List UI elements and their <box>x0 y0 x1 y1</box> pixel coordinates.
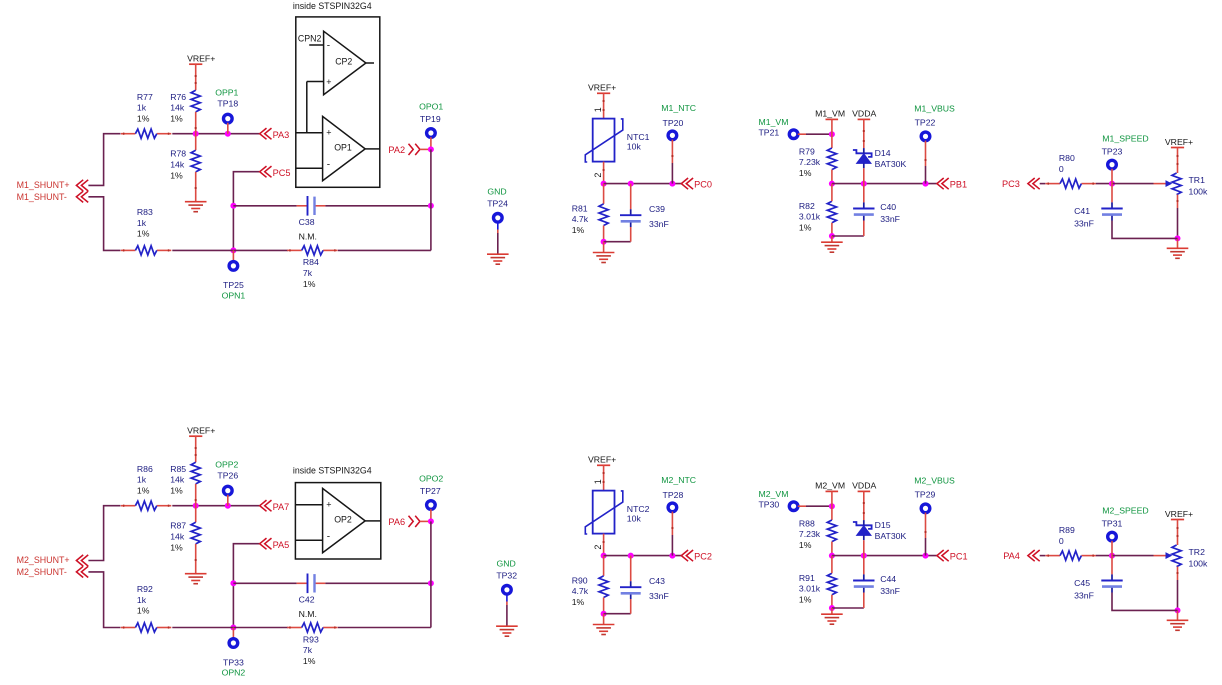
junction R91 ground node <box>829 605 835 611</box>
wire TP31 stub <box>1111 541 1113 556</box>
resistor R91 <box>827 573 836 595</box>
test point TP21 <box>789 130 798 139</box>
wire lower rail right <box>338 249 431 251</box>
port PA4 chevron <box>1028 550 1040 561</box>
junction VM node <box>829 131 835 137</box>
wire NTC node row <box>604 555 682 557</box>
wire output column <box>430 149 432 250</box>
junction TP28 tap <box>669 553 675 559</box>
svg-text:VREF+: VREF+ <box>187 54 215 64</box>
capacitor C41 <box>1101 208 1122 210</box>
junction mid node TP22 <box>923 181 929 187</box>
svg-text:3.01k: 3.01k <box>799 212 821 222</box>
svg-text:CPN2: CPN2 <box>298 34 322 44</box>
wire C41 to TR1 ground <box>1112 221 1178 239</box>
svg-text:PA3: PA3 <box>273 130 290 140</box>
svg-text:-: - <box>327 532 330 543</box>
svg-text:PC0: PC0 <box>694 180 712 190</box>
junction R82 ground node <box>829 233 835 239</box>
port M1_SHUNT+ chevron <box>76 180 88 191</box>
diode D15 cathode <box>853 522 872 529</box>
svg-text:1%: 1% <box>170 170 183 180</box>
wire CP2 plus to OP1 plus <box>296 82 307 133</box>
wire TP25 stub <box>232 250 234 261</box>
comparator CP2 non-inverting input pin <box>307 81 324 83</box>
svg-text:TP21: TP21 <box>759 128 780 138</box>
svg-text:PC1: PC1 <box>950 552 968 562</box>
test point TP29 <box>921 504 930 513</box>
junction R81 ground node <box>601 239 607 245</box>
svg-text:2: 2 <box>593 173 603 178</box>
wire lower rail middle <box>172 627 288 629</box>
junction C43 top <box>628 553 634 559</box>
power VREF+ for R76 <box>189 63 202 65</box>
svg-text:1%: 1% <box>799 540 812 550</box>
resistor R85 <box>191 462 200 484</box>
op-amp OP2 triangle <box>323 488 366 552</box>
diode D14 anode triangle <box>857 154 871 164</box>
svg-text:PA4: PA4 <box>1003 551 1020 561</box>
svg-text:1%: 1% <box>137 229 150 239</box>
svg-text:1%: 1% <box>303 656 316 666</box>
svg-text:R78: R78 <box>170 149 186 159</box>
power VREF+ for R85 <box>189 435 202 437</box>
svg-text:0: 0 <box>1059 164 1064 174</box>
svg-text:R88: R88 <box>799 518 815 528</box>
wire to ground VM <box>831 608 833 614</box>
ground below R87 <box>185 573 207 575</box>
svg-text:inside STSPIN32G4: inside STSPIN32G4 <box>293 466 372 476</box>
wire R85 to rail <box>195 484 197 506</box>
resistor R93 leads <box>287 627 302 629</box>
wire ground node to C40 <box>832 235 864 237</box>
junction TP26 tap <box>225 503 231 509</box>
test point TP24 <box>494 214 503 223</box>
thermistor NTC1 diagonal <box>585 119 623 162</box>
svg-text:1%: 1% <box>137 113 150 123</box>
junction NTC node <box>601 553 607 559</box>
ground speed cluster <box>1167 619 1189 621</box>
svg-text:1%: 1% <box>137 606 150 616</box>
wire cap to output column <box>325 582 431 584</box>
wire TP24 to ground <box>497 222 499 230</box>
test point TP27 <box>427 501 436 510</box>
wire to ground NTC <box>603 242 605 253</box>
resistor R76 <box>191 90 200 112</box>
svg-text:PB1: PB1 <box>950 180 967 190</box>
svg-text:7k: 7k <box>303 268 313 278</box>
wire M1_SHUNT+ to rail <box>88 134 120 186</box>
resistor R93 <box>302 623 323 632</box>
capacitor C42 leads <box>297 582 308 584</box>
junction output column feedback <box>428 203 434 209</box>
svg-text:OPO2: OPO2 <box>419 474 443 484</box>
svg-text:C43: C43 <box>649 576 665 586</box>
svg-text:CP2: CP2 <box>335 57 352 67</box>
port PB1 chevron <box>937 178 949 189</box>
test point TP31 <box>1108 532 1117 541</box>
svg-text:7.23k: 7.23k <box>799 529 821 539</box>
svg-text:OP1: OP1 <box>334 143 352 153</box>
resistor R88 <box>827 520 836 542</box>
wire rail to R78 <box>195 134 197 151</box>
resistor R86 <box>135 501 156 510</box>
svg-text:TP29: TP29 <box>915 489 936 499</box>
svg-text:R81: R81 <box>572 203 588 213</box>
svg-text:M1_NTC: M1_NTC <box>661 103 696 113</box>
thermistor NTC1 body <box>593 119 615 162</box>
svg-text:M1_SPEED: M1_SPEED <box>1102 134 1148 144</box>
junction C39 top <box>628 181 634 187</box>
svg-text:1%: 1% <box>170 542 183 552</box>
wire rail node A <box>172 505 259 507</box>
resistor R84 <box>302 246 323 255</box>
svg-text:PC5: PC5 <box>273 168 291 178</box>
resistor R92 leads <box>121 627 135 629</box>
junction output node <box>428 518 434 524</box>
svg-text:D15: D15 <box>875 520 891 530</box>
port PA3 chevron <box>260 128 272 139</box>
svg-text:33nF: 33nF <box>880 586 900 596</box>
svg-text:14k: 14k <box>170 103 185 113</box>
capacitor C43 <box>620 586 641 588</box>
svg-text:1%: 1% <box>170 113 183 123</box>
svg-text:R90: R90 <box>572 575 588 585</box>
ground NTC cluster <box>593 624 615 626</box>
svg-text:VDDA: VDDA <box>852 109 876 119</box>
test point TP32 <box>503 586 512 595</box>
STSPIN32G4 internal block outline <box>295 483 380 559</box>
svg-text:R85: R85 <box>170 464 186 474</box>
svg-text:R91: R91 <box>799 573 815 583</box>
svg-text:10k: 10k <box>627 141 642 151</box>
resistor R89 <box>1060 551 1081 560</box>
resistor R77 leads <box>121 133 135 135</box>
svg-text:M1_SHUNT+: M1_SHUNT+ <box>17 180 70 190</box>
svg-text:M2_NTC: M2_NTC <box>661 475 696 485</box>
svg-text:R76: R76 <box>170 92 186 102</box>
STSPIN32G4 internal block outline <box>296 17 380 187</box>
svg-text:1%: 1% <box>799 595 812 605</box>
junction mid node D14 <box>861 181 867 187</box>
svg-text:14k: 14k <box>170 160 185 170</box>
capacitor C39 <box>620 214 641 216</box>
wire TP32 to ground <box>506 594 508 602</box>
junction NTC node <box>601 181 607 187</box>
svg-text:1%: 1% <box>799 223 812 233</box>
svg-text:TP33: TP33 <box>223 657 244 667</box>
port M2_SHUNT- chevron <box>76 566 88 577</box>
svg-text:R77: R77 <box>137 92 153 102</box>
junction lower rail TP33 <box>230 625 236 631</box>
svg-text:33nF: 33nF <box>649 591 669 601</box>
test point TP18 <box>224 114 233 123</box>
power VREF+ NTC column <box>597 464 610 466</box>
svg-text:R83: R83 <box>137 207 153 217</box>
svg-text:VREF+: VREF+ <box>1165 137 1193 147</box>
capacitor C38 leads <box>297 205 308 207</box>
wire R87 to ground <box>195 544 197 574</box>
junction TR2 ground node <box>1175 607 1181 613</box>
svg-text:OPN2: OPN2 <box>222 668 246 678</box>
wire PC5 branch <box>233 172 259 251</box>
svg-text:VREF+: VREF+ <box>588 455 616 465</box>
svg-text:D14: D14 <box>875 148 891 158</box>
capacitor C45 leads <box>1111 556 1113 575</box>
test point TP20 <box>668 131 677 140</box>
junction feedback node left <box>230 580 236 586</box>
svg-text:R86: R86 <box>137 464 153 474</box>
op-amp OP1 inverting input pin <box>296 167 323 169</box>
test point TP26 <box>224 486 233 495</box>
wire NTC2 pin 2 to node <box>603 534 605 556</box>
wire TP18 stub <box>227 123 229 134</box>
svg-text:100k: 100k <box>1189 559 1208 569</box>
junction TR1 ground node <box>1175 235 1181 241</box>
diode D15 pins <box>863 520 865 525</box>
op-amp OP2 non-inverting input pin <box>296 504 323 506</box>
test point TP28 <box>668 503 677 512</box>
ground NTC cluster <box>593 252 615 254</box>
wire C45 to TR2 ground <box>1112 593 1178 611</box>
resistor R78 <box>191 150 200 172</box>
wire PA4 to R89 <box>1040 555 1046 557</box>
test point TP19 <box>427 129 436 138</box>
wire to ground VM <box>831 236 833 242</box>
svg-text:R92: R92 <box>137 584 153 594</box>
wire mid node to R91 <box>831 556 833 574</box>
wire rail node A <box>172 133 259 135</box>
port PA2 chevron <box>409 144 420 155</box>
wire NTC node row <box>604 183 682 185</box>
op-amp OP1 non-inverting input pin <box>296 132 323 134</box>
wire TP20 stub <box>671 140 673 163</box>
wire NTC1 pin 2 to node <box>603 162 605 184</box>
svg-text:TP28: TP28 <box>663 490 684 500</box>
svg-text:4.7k: 4.7k <box>572 214 589 224</box>
svg-text:TP27: TP27 <box>420 486 441 496</box>
power VREF+ TR1 <box>1171 147 1184 149</box>
svg-text:TP26: TP26 <box>217 471 238 481</box>
svg-text:1k: 1k <box>137 595 147 605</box>
diode D14 cathode <box>853 150 872 157</box>
svg-text:+: + <box>326 127 331 137</box>
wire R90 to ground node <box>603 598 605 614</box>
test point TP22 <box>921 132 930 141</box>
test point TP23 <box>1108 160 1117 169</box>
wire TP26 stub <box>227 495 229 506</box>
wire to ground speed <box>1177 238 1179 248</box>
capacitor C42 <box>307 574 309 594</box>
test point TP30 <box>789 502 798 511</box>
svg-text:1k: 1k <box>137 103 147 113</box>
svg-text:33nF: 33nF <box>1074 591 1094 601</box>
svg-text:BAT30K: BAT30K <box>875 531 907 541</box>
diode D15 anode triangle <box>857 526 871 536</box>
resistor R89 leads <box>1046 555 1061 557</box>
svg-text:PC2: PC2 <box>694 552 712 562</box>
svg-text:PA7: PA7 <box>273 502 290 512</box>
resistor R90 <box>599 576 608 598</box>
svg-text:M1_VM: M1_VM <box>759 117 789 127</box>
svg-text:10k: 10k <box>627 513 642 523</box>
svg-text:TP24: TP24 <box>487 199 508 209</box>
svg-text:C45: C45 <box>1074 578 1090 588</box>
svg-text:7k: 7k <box>303 645 313 655</box>
svg-text:R84: R84 <box>303 257 319 267</box>
wire R88 to mid node <box>831 542 833 556</box>
wire node to R79 <box>831 134 833 148</box>
svg-text:VDDA: VDDA <box>852 481 876 491</box>
svg-text:M2_SHUNT-: M2_SHUNT- <box>17 567 67 577</box>
resistor R92 <box>135 623 156 632</box>
svg-text:R80: R80 <box>1059 153 1075 163</box>
power VREF+ NTC column <box>597 92 610 94</box>
svg-text:C39: C39 <box>649 204 665 214</box>
wire PC3 to R80 <box>1040 183 1046 185</box>
wire R80 to speed node <box>1096 183 1112 185</box>
op-amp OP1 triangle <box>323 116 366 180</box>
junction divider node <box>193 503 199 509</box>
potentiometer TR2 <box>1172 545 1181 567</box>
capacitor C39 leads <box>630 184 632 210</box>
junction VM node <box>829 503 835 509</box>
wire TP21 to VM node <box>798 133 806 135</box>
wire TP23 stub <box>1111 169 1113 184</box>
wire VREF+ to NTC2 pin 1 <box>603 465 605 490</box>
ground VM cluster <box>821 241 843 243</box>
wire TP28 stub <box>671 512 673 535</box>
port M2_SHUNT+ chevron <box>76 555 88 566</box>
wire TP30 to VM node <box>798 505 806 507</box>
wire TP33 stub <box>232 628 234 639</box>
capacitor C40 <box>853 208 874 210</box>
wire R79 to mid node <box>831 170 833 184</box>
test point TP25 <box>229 262 238 271</box>
svg-text:OPP1: OPP1 <box>215 88 238 98</box>
wire TP27 to output node <box>430 509 432 521</box>
wire rail to R87 <box>195 506 197 523</box>
wire VREF+ to TR1 <box>1177 148 1179 174</box>
junction mid node D14 <box>861 553 867 559</box>
svg-text:M1_SHUNT-: M1_SHUNT- <box>17 192 67 202</box>
svg-text:M2_VM: M2_VM <box>759 489 789 499</box>
port M1_SHUNT- chevron <box>76 191 88 202</box>
junction TP18 tap <box>225 131 231 137</box>
port PC3 chevron <box>1028 178 1040 189</box>
svg-text:14k: 14k <box>170 532 185 542</box>
svg-text:TR2: TR2 <box>1189 547 1206 557</box>
svg-text:TR1: TR1 <box>1189 175 1206 185</box>
wire mid node to R82 <box>831 184 833 202</box>
svg-text:3.01k: 3.01k <box>799 584 821 594</box>
wire R81 to ground node <box>603 226 605 242</box>
svg-text:R93: R93 <box>303 634 319 644</box>
wire R89 to speed node <box>1096 555 1112 557</box>
capacitor C45 <box>1101 580 1122 582</box>
svg-text:R87: R87 <box>170 521 186 531</box>
wire D14 to mid node <box>863 168 865 183</box>
junction output node <box>428 146 434 152</box>
svg-text:TP31: TP31 <box>1102 519 1123 529</box>
wire VREF+ to R85 <box>195 436 197 462</box>
wire PA6 to node <box>420 520 431 522</box>
svg-text:OP2: OP2 <box>334 515 352 525</box>
svg-text:M1_VBUS: M1_VBUS <box>914 103 955 113</box>
wire R76 to rail <box>195 112 197 134</box>
svg-text:OPN1: OPN1 <box>222 290 246 300</box>
svg-text:M2_SHUNT+: M2_SHUNT+ <box>17 555 70 565</box>
svg-text:14k: 14k <box>170 475 185 485</box>
wire lower rail middle <box>172 249 288 251</box>
resistor R80 leads <box>1046 183 1061 185</box>
capacitor C44 <box>853 580 874 582</box>
capacitor C43 leads <box>630 556 632 582</box>
wire ground node to C43 <box>604 613 631 615</box>
junction feedback node left <box>230 203 236 209</box>
resistor R84 leads <box>287 249 302 251</box>
resistor R86 leads <box>121 505 135 507</box>
port PC1 chevron <box>937 550 949 561</box>
capacitor C44 leads <box>863 556 865 575</box>
wire VREF+ to NTC1 pin 1 <box>603 93 605 118</box>
svg-text:33nF: 33nF <box>880 214 900 224</box>
wire to ground NTC <box>603 614 605 625</box>
wire TR1 to ground node <box>1177 195 1179 208</box>
wire node to R90 <box>603 556 605 576</box>
resistor R82 <box>827 201 836 223</box>
resistor R83 <box>135 246 156 255</box>
wire D15 to mid node <box>863 540 865 555</box>
svg-text:TP32: TP32 <box>496 571 517 581</box>
wire VDDA to D14 <box>863 119 865 148</box>
capacitor C41 leads <box>1111 184 1113 203</box>
test point TP33 <box>229 639 238 648</box>
wire output column <box>430 521 432 627</box>
junction output column feedback <box>428 580 434 586</box>
comparator CP2 triangle <box>324 31 366 94</box>
resistor R77 <box>135 129 156 138</box>
op-amp OP2 inverting input pin <box>296 539 323 541</box>
junction mid node R79 <box>829 181 835 187</box>
svg-text:TP22: TP22 <box>915 117 936 127</box>
port PC5 chevron <box>260 166 272 177</box>
svg-text:1%: 1% <box>303 279 316 289</box>
svg-text:100k: 100k <box>1189 187 1208 197</box>
svg-text:M2_VBUS: M2_VBUS <box>914 475 955 485</box>
svg-text:TP30: TP30 <box>759 500 780 510</box>
wire speed node to TR2 <box>1112 555 1154 557</box>
thermistor NTC2 diagonal <box>585 491 623 534</box>
svg-text:+: + <box>326 499 331 509</box>
svg-text:TP25: TP25 <box>223 280 244 290</box>
resistor R81 <box>599 204 608 226</box>
wire PA5 branch <box>233 544 259 628</box>
resistor R80 <box>1060 179 1081 188</box>
wire M2_SHUNT+ to rail <box>88 506 120 561</box>
junction lower rail TP25 <box>230 247 236 253</box>
svg-text:1%: 1% <box>170 485 183 495</box>
ground below R78 <box>185 201 207 203</box>
op-amp OP1 output pin <box>365 148 380 150</box>
wire ground node to C39 <box>604 241 631 243</box>
svg-text:+: + <box>326 77 331 87</box>
wire VREF+ to R76 <box>195 64 197 90</box>
svg-text:TP20: TP20 <box>663 118 684 128</box>
svg-text:N.M.: N.M. <box>299 609 317 619</box>
svg-text:R79: R79 <box>799 146 815 156</box>
junction divider node <box>193 131 199 137</box>
